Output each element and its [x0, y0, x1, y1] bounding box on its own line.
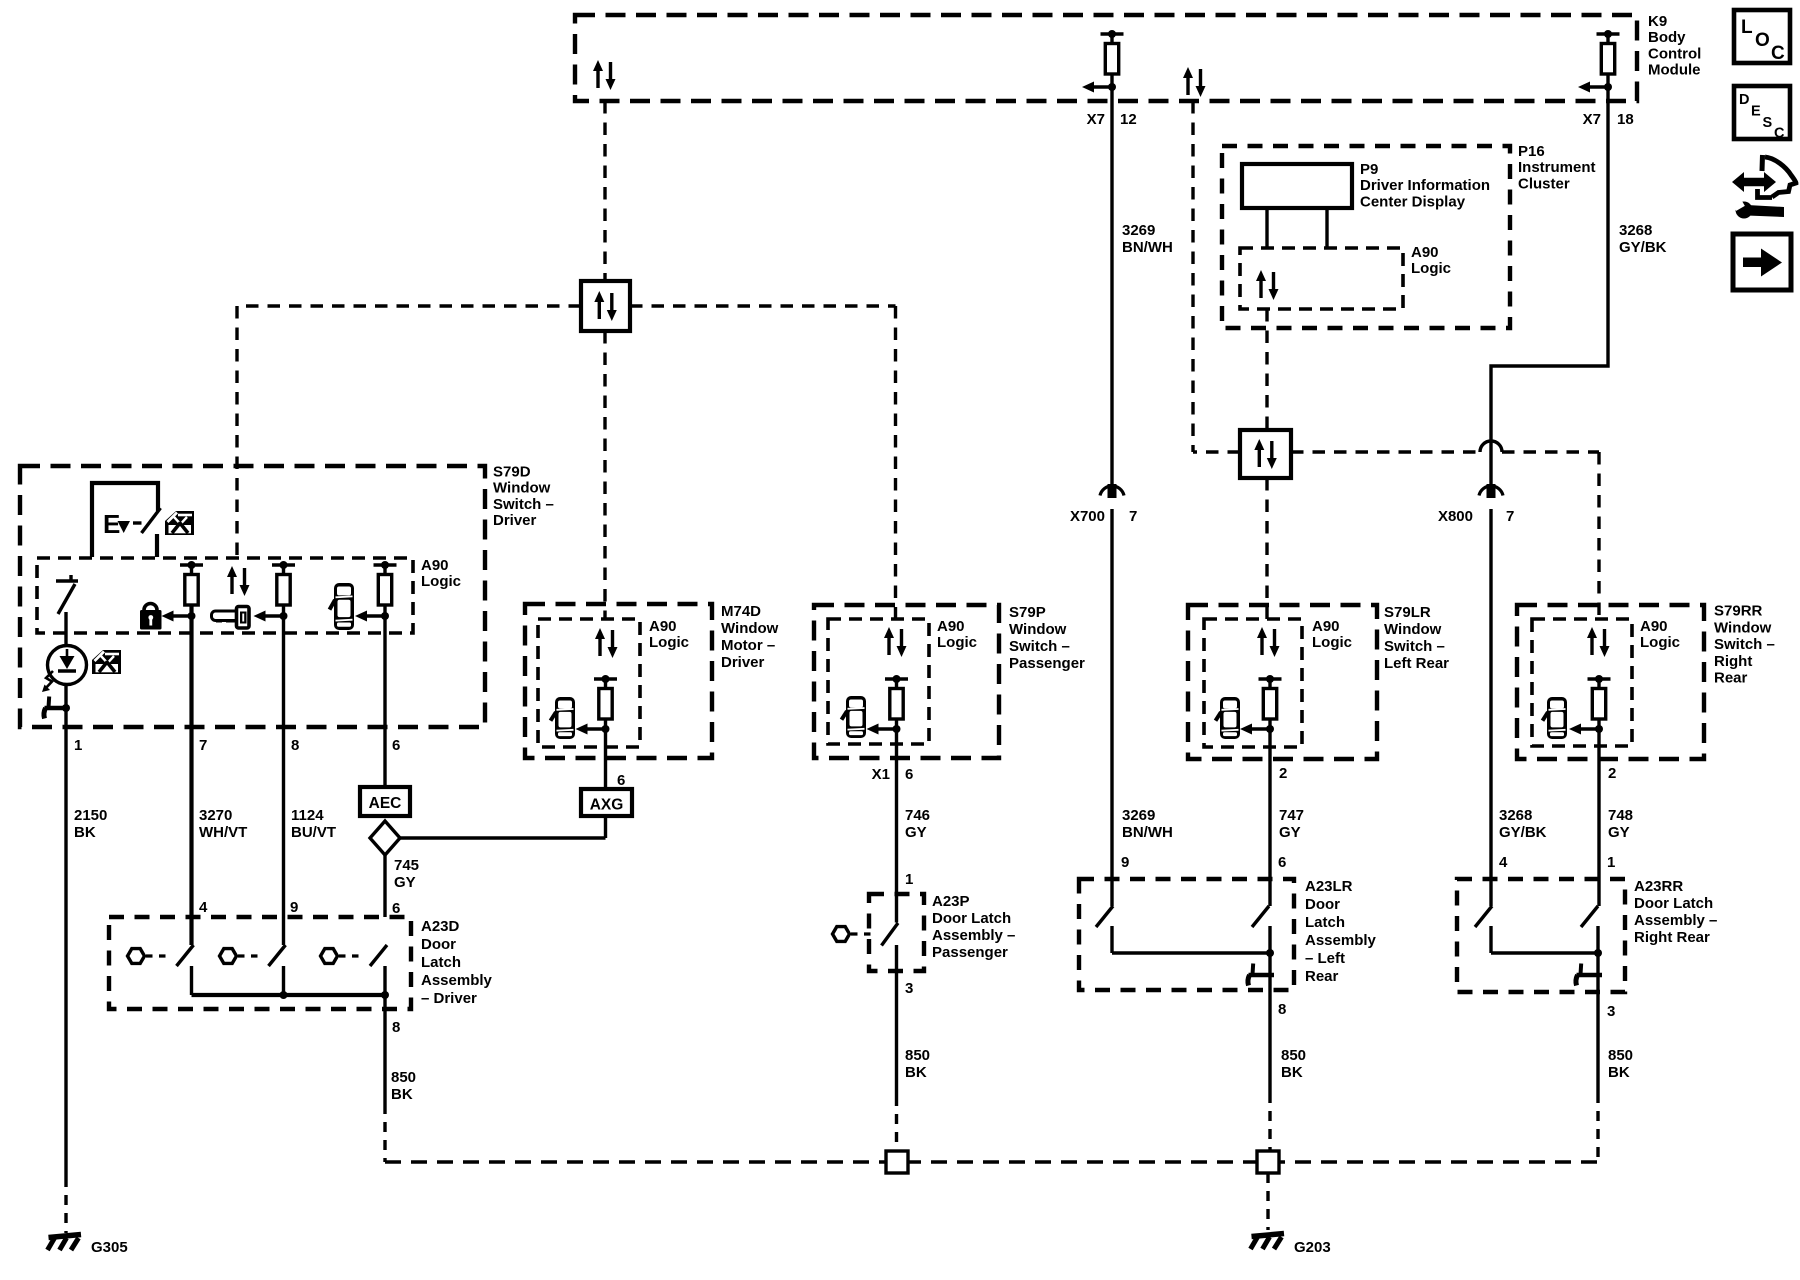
svg-text:Door: Door: [1305, 896, 1340, 913]
wire 747 GY: [1268, 719, 1271, 906]
bus inside A23D: [192, 993, 386, 997]
wire splice to AXG: [400, 836, 606, 839]
svg-text:1: 1: [1607, 854, 1615, 871]
svg-text:X700: X700: [1070, 508, 1105, 525]
svg-text:Logic: Logic: [1640, 634, 1680, 651]
svg-text:S79LR: S79LR: [1384, 604, 1431, 621]
splice pack AXG: [581, 789, 632, 816]
legend DESC box: [1734, 86, 1790, 139]
svg-text:7: 7: [199, 737, 207, 754]
splice box (passenger): [886, 1151, 908, 1173]
wire 748 GY: [1597, 719, 1600, 906]
svg-text:18: 18: [1617, 111, 1634, 128]
wire dashed down to S79RR A90 logic: [1597, 452, 1600, 619]
key icon: [212, 607, 250, 629]
svg-text:BU/VT: BU/VT: [291, 824, 336, 841]
car icon M74D: [551, 697, 576, 739]
svg-text:4: 4: [1499, 854, 1508, 871]
svg-text:Driver: Driver: [493, 512, 537, 529]
svg-text:G305: G305: [91, 1239, 128, 1256]
svg-text:Passenger: Passenger: [1009, 655, 1085, 672]
door latch lever A23LR: [1248, 964, 1274, 986]
wire dashed down to S79LR A90 logic: [1265, 478, 1268, 619]
connector X800 pin 7: [1479, 484, 1503, 498]
wire dashed down to M74D A90 logic: [603, 331, 606, 619]
svg-text:3270: 3270: [199, 807, 232, 824]
svg-text:8: 8: [392, 1019, 400, 1036]
lock icon: [140, 604, 162, 630]
car icon S79D: [330, 583, 355, 630]
svg-text:6: 6: [617, 772, 625, 789]
svg-text:GY: GY: [905, 824, 927, 841]
svg-text:Window: Window: [721, 620, 779, 637]
resistor (car/window position): [374, 561, 397, 605]
svg-text:AXG: AXG: [590, 797, 624, 814]
wire dashed branch right to S79P: [630, 304, 896, 307]
svg-text:A90: A90: [1411, 244, 1439, 261]
svg-text:3268: 3268: [1499, 807, 1532, 824]
svg-text:8: 8: [1278, 1001, 1286, 1018]
switch (key) in A23D: [269, 945, 286, 966]
svg-text:BK: BK: [74, 824, 96, 841]
wire 746 GY: [895, 719, 898, 923]
module P16 Instrument Cluster box: [1222, 146, 1510, 328]
svg-text:BK: BK: [905, 1064, 927, 1081]
wire to G203: [1266, 1173, 1269, 1230]
svg-text:3: 3: [905, 980, 913, 997]
display P9 Driver Information Center Display: [1242, 164, 1352, 208]
wire 3268 GY/BK from K9 X7-18: [1491, 75, 1608, 484]
svg-text:Rear: Rear: [1714, 670, 1748, 687]
svg-text:8: 8: [291, 737, 299, 754]
splice box (left rear / G203): [1257, 1151, 1279, 1173]
svg-text:A90: A90: [421, 557, 449, 574]
wire 850 BK left rear: [1268, 926, 1271, 1093]
svg-text:S79D: S79D: [493, 464, 531, 481]
svg-text:Door Latch: Door Latch: [932, 910, 1011, 927]
wire 3269 BN/WH from K9 X7-12: [1110, 75, 1113, 484]
svg-text:X800: X800: [1438, 508, 1473, 525]
svg-text:Window: Window: [1009, 621, 1067, 638]
logic block A90 inside S79LR: [1204, 619, 1302, 747]
svg-text:BN/WH: BN/WH: [1122, 239, 1173, 256]
ground G305: [48, 1235, 82, 1251]
svg-text:– Driver: – Driver: [421, 990, 477, 1007]
svg-text:Logic: Logic: [937, 634, 977, 651]
wire 850 BK passenger: [895, 945, 898, 1096]
svg-text:Assembly: Assembly: [421, 972, 493, 989]
svg-text:GY/BK: GY/BK: [1619, 239, 1667, 256]
wire 745 GY to A23D: [383, 855, 386, 917]
svg-text:P16: P16: [1518, 143, 1545, 160]
express-down switch symbol: [92, 483, 158, 557]
svg-text:4: 4: [199, 899, 208, 916]
svg-text:12: 12: [1120, 111, 1137, 128]
svg-text:BN/WH: BN/WH: [1122, 824, 1173, 841]
svg-text:A90: A90: [1640, 618, 1668, 635]
up/down arrows S79D: [227, 566, 250, 596]
splice pack AEC: [360, 787, 410, 816]
wire P9 left leg: [1265, 208, 1268, 248]
svg-text:Assembly: Assembly: [1305, 932, 1377, 949]
svg-text:Latch: Latch: [1305, 914, 1345, 931]
svg-text:G203: G203: [1294, 1239, 1331, 1256]
svg-text:3: 3: [1607, 1003, 1615, 1020]
svg-text:850: 850: [1608, 1047, 1633, 1064]
ground G203: [1251, 1234, 1285, 1250]
svg-text:850: 850: [1281, 1047, 1306, 1064]
svg-text:2150: 2150: [74, 807, 107, 824]
wire to G305 dashed: [64, 1177, 67, 1233]
LED illumination lamp: [48, 646, 87, 685]
wire dashed branch right from rear node with hop: [1291, 450, 1480, 453]
svg-text:Passenger: Passenger: [932, 944, 1008, 961]
resistor S79RR: [1588, 675, 1611, 719]
svg-text:Logic: Logic: [421, 573, 461, 590]
module A23P Door Latch Assembly Passenger box: [869, 894, 924, 971]
svg-text:Switch –: Switch –: [493, 496, 554, 513]
svg-text:C: C: [1771, 43, 1785, 64]
svg-text:– Left: – Left: [1305, 950, 1345, 967]
svg-text:Left Rear: Left Rear: [1384, 655, 1449, 672]
wire M74D pin 6 to AXG: [604, 719, 607, 789]
svg-text:D: D: [1739, 92, 1749, 108]
svg-text:A23P: A23P: [932, 893, 970, 910]
svg-text:Window: Window: [1384, 621, 1442, 638]
svg-text:E: E: [1751, 104, 1761, 120]
svg-text:Switch –: Switch –: [1384, 638, 1445, 655]
wire 850 BK driver: [383, 995, 386, 1104]
svg-text:Instrument: Instrument: [1518, 159, 1596, 176]
svg-text:S79RR: S79RR: [1714, 603, 1763, 620]
resistor M74D: [594, 675, 617, 719]
switch on 748 in A23RR: [1581, 906, 1598, 927]
window icon (express): [165, 511, 194, 535]
svg-text:3269: 3269: [1122, 807, 1155, 824]
svg-text:S: S: [1763, 115, 1773, 131]
module A23LR Door Latch Assembly Left Rear box: [1079, 879, 1294, 990]
svg-text:6: 6: [392, 737, 400, 754]
svg-text:Driver Information: Driver Information: [1360, 177, 1490, 194]
svg-text:Right Rear: Right Rear: [1634, 929, 1710, 946]
module A23D Door Latch Assembly Driver box: [109, 917, 411, 1009]
switch module S79P Window Switch Passenger box: [814, 605, 999, 758]
wire 1124 BU/VT (pin 8): [282, 604, 285, 945]
svg-text:Logic: Logic: [1312, 634, 1352, 651]
wire to LED: [64, 612, 67, 646]
svg-text:O: O: [1755, 30, 1770, 51]
switch on 3268 in A23RR: [1475, 906, 1492, 927]
wire S79D pin 1 down: [64, 713, 67, 1177]
svg-text:1124: 1124: [291, 807, 324, 824]
svg-text:Switch –: Switch –: [1714, 636, 1775, 653]
logic block A90 inside S79RR: [1532, 619, 1632, 746]
svg-text:850: 850: [905, 1047, 930, 1064]
svg-text:Motor –: Motor –: [721, 637, 775, 654]
svg-text:Latch: Latch: [421, 954, 461, 971]
car icon S79LR: [1216, 697, 1241, 739]
svg-text:Window: Window: [1714, 619, 1772, 636]
svg-text:Center Display: Center Display: [1360, 193, 1466, 210]
K9 internal up/down window logic arrows (left): [593, 60, 616, 90]
legend data-communication icon: [1731, 155, 1796, 219]
svg-text:Control: Control: [1648, 45, 1701, 62]
svg-text:748: 748: [1608, 807, 1633, 824]
svg-text:9: 9: [1121, 854, 1129, 871]
svg-text:745: 745: [394, 857, 419, 874]
legend LOC box: [1734, 10, 1790, 63]
wire LED to lever: [64, 685, 67, 714]
svg-text:L: L: [1741, 17, 1753, 38]
svg-text:2: 2: [1279, 765, 1287, 782]
node arrow junction X7-18: [1578, 82, 1612, 93]
svg-text:Window: Window: [493, 480, 551, 497]
resistor (lock signal): [180, 561, 203, 605]
svg-text:Logic: Logic: [649, 634, 689, 651]
svg-text:X1: X1: [872, 766, 890, 783]
resistor (key signal): [272, 561, 295, 605]
wire dashed branch left to S79D: [237, 304, 581, 307]
svg-text:A90: A90: [1312, 618, 1340, 635]
svg-text:GY/BK: GY/BK: [1499, 824, 1547, 841]
node window up/down box (driver circuit): [581, 281, 630, 331]
wire dashed logic line from K9 to window motor node: [603, 101, 606, 281]
car icon S79RR: [1543, 697, 1568, 739]
svg-text:3268: 3268: [1619, 222, 1652, 239]
node window up/down box (rear circuit): [1240, 430, 1291, 478]
svg-text:GY: GY: [394, 874, 416, 891]
svg-text:Switch –: Switch –: [1009, 638, 1070, 655]
svg-text:Assembly –: Assembly –: [1634, 912, 1717, 929]
wire dashed from P16 A90 logic down: [1265, 309, 1268, 430]
svg-text:GY: GY: [1608, 824, 1630, 841]
wire dashed down to S79P A90 logic: [894, 306, 897, 619]
svg-text:Assembly –: Assembly –: [932, 927, 1015, 944]
svg-text:A23RR: A23RR: [1634, 878, 1683, 895]
svg-text:K9: K9: [1648, 13, 1667, 30]
svg-text:7: 7: [1506, 508, 1514, 525]
module A23RR Door Latch Assembly Right Rear box: [1457, 879, 1625, 992]
svg-text:Driver: Driver: [721, 654, 765, 671]
switch (ajar) in A23D: [370, 945, 387, 966]
wire dashed branch left from rear node: [1193, 450, 1240, 453]
svg-text:M74D: M74D: [721, 603, 761, 620]
bus inside A23LR: [1112, 951, 1270, 954]
svg-text:3269: 3269: [1122, 222, 1155, 239]
svg-text:X7: X7: [1087, 111, 1105, 128]
svg-text:Door: Door: [421, 936, 456, 953]
node arrow junction X7-12: [1082, 82, 1116, 93]
switch in A23P: [882, 923, 899, 946]
svg-text:Body: Body: [1648, 29, 1686, 46]
K9 internal up/down window logic arrows (right): [1183, 67, 1206, 97]
svg-text:747: 747: [1279, 807, 1304, 824]
svg-text:6: 6: [1278, 854, 1286, 871]
svg-text:A90: A90: [937, 618, 965, 635]
wire P9 right leg: [1325, 208, 1328, 248]
resistor (K9 driver circuit, pin X7-12): [1101, 30, 1124, 74]
bus inside A23RR: [1491, 951, 1598, 954]
svg-text:Rear: Rear: [1305, 968, 1339, 985]
logic block A90 inside P16: [1240, 248, 1403, 309]
logic block A90 inside S79P: [828, 619, 929, 744]
door latch lever A23RR: [1576, 964, 1602, 986]
switch on 747 in A23LR: [1252, 906, 1269, 927]
wire dashed logic from K9 to rear node: [1191, 101, 1194, 452]
switch contact (backlight feed): [56, 579, 78, 582]
legend forward arrow box: [1733, 234, 1791, 290]
module K9 Body Control Module box: [575, 15, 1637, 101]
wire ground bus 850 BK dashed: [385, 1160, 1598, 1163]
svg-text:GY: GY: [1279, 824, 1301, 841]
svg-text:746: 746: [905, 807, 930, 824]
svg-text:S79P: S79P: [1009, 604, 1046, 621]
svg-text:A90: A90: [649, 618, 677, 635]
svg-text:A23D: A23D: [421, 918, 460, 935]
svg-text:A23LR: A23LR: [1305, 878, 1353, 895]
svg-text:BK: BK: [1608, 1064, 1630, 1081]
door latch lever symbol: [44, 697, 70, 719]
svg-text:7: 7: [1129, 508, 1137, 525]
svg-text:1: 1: [74, 737, 82, 754]
svg-text:Module: Module: [1648, 62, 1701, 79]
logic block A90 inside M74D: [538, 619, 640, 747]
svg-text:Logic: Logic: [1411, 260, 1451, 277]
svg-text:Cluster: Cluster: [1518, 175, 1570, 192]
svg-text:2: 2: [1608, 765, 1616, 782]
wire dashed branch down to S79D A90 logic: [235, 306, 238, 558]
switch (lock) in A23D: [177, 945, 194, 966]
svg-text:P9: P9: [1360, 161, 1378, 178]
car icon S79P: [842, 696, 867, 738]
wire 3270 WH/VT (pin 7): [189, 604, 193, 945]
svg-text:6: 6: [905, 766, 913, 783]
svg-text:1: 1: [905, 871, 913, 888]
switch module S79RR Window Switch Right Rear box: [1517, 605, 1704, 759]
svg-text:C: C: [1774, 126, 1785, 142]
logic block A90 inside S79D: [37, 558, 413, 633]
svg-text:9: 9: [290, 899, 298, 916]
resistor S79LR: [1259, 675, 1282, 719]
svg-text:BK: BK: [391, 1086, 413, 1103]
svg-text:Door Latch: Door Latch: [1634, 895, 1713, 912]
switch module S79D Window Switch Driver box: [20, 466, 485, 727]
module M74D Window Motor Driver box: [525, 604, 712, 758]
svg-text:6: 6: [392, 900, 400, 917]
switch on 3269 in A23LR: [1096, 906, 1113, 927]
resistor (K9 rear circuit, pin X7-18): [1597, 30, 1620, 74]
wire 850 BK right rear: [1596, 926, 1599, 1093]
svg-text:X7: X7: [1583, 111, 1601, 128]
svg-text:WH/VT: WH/VT: [199, 824, 247, 841]
svg-text:Right: Right: [1714, 653, 1752, 670]
svg-text:AEC: AEC: [369, 795, 402, 812]
svg-text:E: E: [103, 509, 120, 539]
wire 745 GY (pin 6): [383, 604, 386, 787]
switch module S79LR Window Switch Left Rear box: [1188, 605, 1377, 759]
window icon (LED): [92, 650, 121, 674]
resistor S79P: [885, 675, 908, 719]
svg-text:BK: BK: [1281, 1064, 1303, 1081]
splice diamond junction: [370, 821, 400, 855]
connector X700 pin 7: [1100, 484, 1124, 498]
svg-text:850: 850: [391, 1069, 416, 1086]
